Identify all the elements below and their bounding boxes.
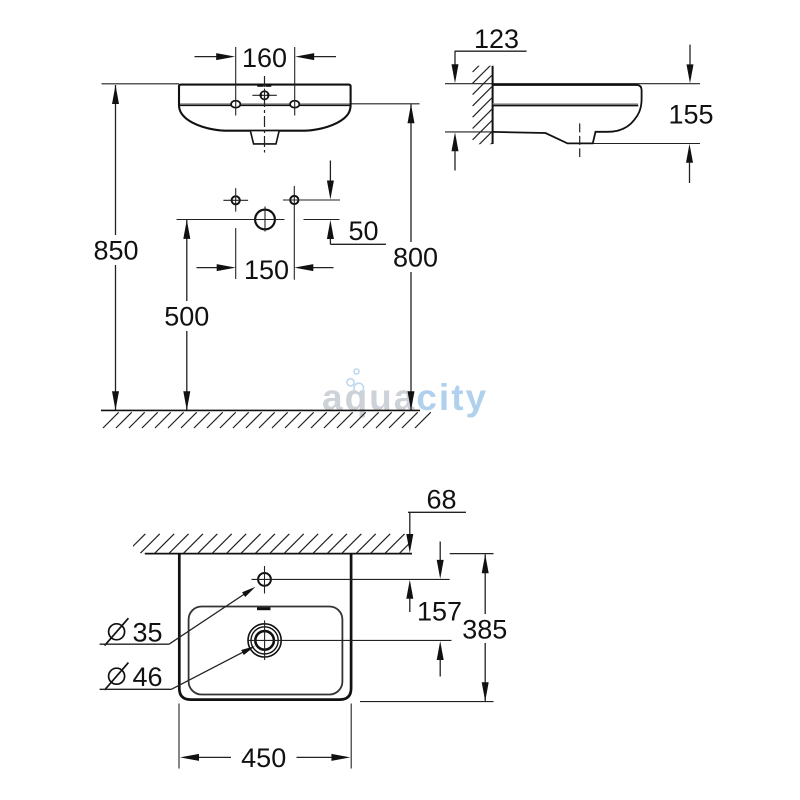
svg-text:50: 50 <box>348 216 378 246</box>
svg-text:385: 385 <box>462 615 507 645</box>
svg-text:123: 123 <box>474 24 519 54</box>
svg-text:157: 157 <box>417 596 462 626</box>
svg-text:500: 500 <box>164 302 209 332</box>
svg-text:800: 800 <box>393 243 438 273</box>
svg-text:160: 160 <box>242 43 287 73</box>
svg-text:68: 68 <box>426 485 456 515</box>
svg-text:150: 150 <box>244 255 289 285</box>
svg-text:46: 46 <box>132 662 162 692</box>
svg-text:450: 450 <box>241 743 286 773</box>
svg-text:850: 850 <box>93 236 138 266</box>
svg-text:155: 155 <box>668 99 713 129</box>
svg-text:aquacity: aquacity <box>322 377 488 418</box>
svg-text:35: 35 <box>132 618 162 648</box>
